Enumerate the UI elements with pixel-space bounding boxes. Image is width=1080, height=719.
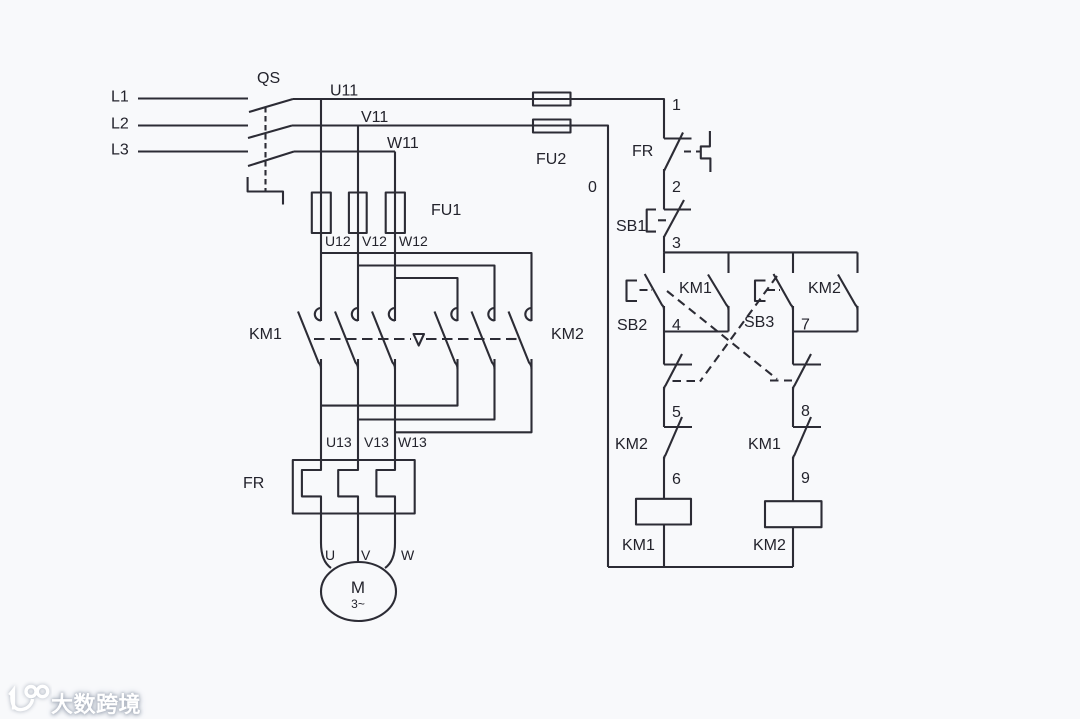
wire KM1 coil to 0: [663, 524, 665, 567]
heater element 3: [376, 460, 395, 514]
svg-text:U: U: [325, 547, 335, 563]
contact KM2 aux blade: [838, 275, 858, 311]
wire KM2 out3 to W13: [395, 359, 532, 432]
button SB3 dashed link: [767, 289, 780, 291]
svg-text:6: 6: [672, 471, 681, 488]
contact SB1 NC tick: [664, 208, 691, 210]
svg-text:3~: 3~: [351, 597, 365, 611]
coil KM2: [765, 501, 822, 527]
coil KM1: [636, 499, 691, 525]
wire branch V to KM2: [358, 266, 495, 322]
fuse FU1-1: [312, 193, 331, 234]
svg-text:2: 2: [672, 179, 681, 196]
wire W13 column: [394, 359, 396, 460]
linkage triangle: [414, 334, 425, 346]
switch QS blade pole2: [248, 126, 292, 139]
relay FR trip symbol: [701, 131, 711, 172]
svg-text:8: 8: [801, 403, 810, 420]
wire U11 drop: [320, 99, 322, 321]
linkage dashed KM1-KM2: [314, 338, 411, 340]
switch QS bracket: [248, 177, 283, 205]
svg-text:L2: L2: [111, 116, 129, 133]
wire KM2 out2 to V13: [358, 359, 495, 420]
wire node6: [663, 457, 665, 499]
wire KM2aux bottom: [856, 306, 858, 332]
wire SB3 top: [792, 252, 794, 273]
switch QS linkage dashed: [264, 107, 266, 191]
svg-text:FU1: FU1: [431, 202, 461, 219]
wire SB2 bottom: [663, 306, 665, 332]
wire KM1aux bottom: [727, 306, 729, 332]
wire node8: [792, 387, 794, 427]
svg-text:FR: FR: [243, 475, 264, 492]
svg-text:KM2: KM2: [551, 326, 584, 343]
svg-text:7: 7: [801, 317, 810, 334]
switch QS blade pole3: [248, 152, 294, 167]
svg-text:4: 4: [672, 317, 681, 334]
svg-text:U11: U11: [330, 83, 358, 100]
wire V13 column: [357, 359, 359, 460]
svg-text:KM2: KM2: [615, 436, 648, 453]
wire L3 incoming: [138, 150, 248, 152]
svg-text:KM1: KM1: [679, 280, 712, 297]
contactor KM2 contact 3: [525, 308, 531, 320]
contact KM1 interlock NC blade: [793, 417, 811, 459]
svg-text:M: M: [351, 578, 365, 597]
wire KM2aux top: [856, 252, 858, 273]
wire branch U to KM2: [321, 253, 532, 321]
contact SB2 NC blade: [793, 354, 811, 390]
wire KM2 coil to 0: [792, 527, 794, 568]
motor M circle: [321, 562, 396, 621]
svg-text:U12: U12: [325, 233, 351, 249]
button SB3 cap: [755, 281, 766, 302]
wire U13 column: [320, 359, 322, 460]
button SB1 cap: [647, 210, 656, 232]
interlock dashed SB3 to left NC: [700, 276, 777, 382]
wire motor lead W: [385, 514, 395, 569]
svg-text:3: 3: [672, 235, 681, 252]
svg-text:L1: L1: [111, 89, 129, 106]
wire U11 top feed: [293, 99, 664, 139]
wire W11 drop: [394, 152, 396, 322]
contact SB3 NO blade: [774, 274, 794, 310]
wire node9: [792, 457, 794, 501]
contact KM1 interlock NC tick: [793, 426, 821, 428]
button SB2 dashed link: [640, 289, 653, 291]
wire motor lead V: [357, 514, 359, 563]
svg-text:0: 0: [588, 179, 597, 196]
svg-text:FR: FR: [632, 143, 653, 160]
contact FR NC tick: [664, 137, 692, 139]
svg-text:SB3: SB3: [744, 314, 774, 331]
wire V11 feed: [292, 126, 608, 568]
contact SB2 NC tick: [793, 363, 821, 365]
wire L2 incoming: [138, 124, 248, 126]
wire node5: [663, 387, 665, 427]
contact KM2 interlock NC blade: [664, 417, 682, 459]
wire SB3 bottom: [792, 306, 794, 332]
contact SB3 NC blade: [664, 354, 682, 390]
wire L1 incoming: [138, 97, 248, 99]
svg-text:QS: QS: [257, 70, 280, 87]
contact FR NC blade: [664, 133, 683, 172]
contact SB2 NO blade: [645, 274, 664, 310]
svg-text:V13: V13: [364, 434, 389, 450]
svg-text:U13: U13: [326, 434, 352, 450]
svg-text:W13: W13: [398, 434, 427, 450]
heater element 1: [302, 460, 321, 514]
svg-text:W: W: [401, 547, 415, 563]
fuse FU1-3: [386, 193, 405, 234]
switch QS blade pole1: [249, 99, 293, 112]
svg-text:KM2: KM2: [808, 280, 841, 297]
svg-text:KM2: KM2: [753, 537, 786, 554]
wire node4 to SB3NC: [663, 332, 665, 365]
svg-text:V: V: [361, 547, 371, 563]
svg-text:W12: W12: [399, 233, 428, 249]
contactor KM1 contact 3: [389, 308, 395, 320]
svg-text:9: 9: [801, 470, 810, 487]
svg-text:KM1: KM1: [249, 326, 282, 343]
contact KM2 interlock NC tick: [664, 426, 692, 428]
wire node7: [793, 330, 858, 332]
wire 0 return rail: [608, 566, 793, 568]
fuse FU2 upper: [533, 93, 571, 106]
wire W11 feed: [294, 150, 395, 152]
wire node3 vertical: [663, 236, 665, 252]
contact KM1 aux blade: [708, 275, 729, 311]
fuse FU1-2: [349, 193, 367, 234]
relay FR heater box: [293, 460, 415, 514]
contactor KM2 contact 2: [488, 308, 494, 320]
svg-text:KM1: KM1: [748, 436, 781, 453]
wire KM1aux top: [727, 252, 729, 273]
wire V11 drop: [357, 126, 359, 322]
heater element 2: [338, 460, 358, 514]
fuse FU2 lower: [533, 120, 571, 133]
contactor KM1 contact 2: [352, 308, 358, 320]
button SB2 cap: [627, 281, 638, 302]
svg-text:5: 5: [672, 404, 681, 421]
interlock dashed SB2 to right NC: [667, 291, 777, 379]
svg-text:V11: V11: [361, 109, 388, 126]
contact FR dashed link: [684, 150, 701, 152]
contactor KM1 contact 1: [315, 308, 321, 320]
wire KM2 out1 to U13: [321, 359, 458, 406]
svg-text:1: 1: [672, 97, 681, 114]
wire node2: [663, 169, 665, 210]
svg-text:V12: V12: [362, 233, 387, 249]
wire node3 rail: [664, 251, 858, 253]
svg-text:SB1: SB1: [616, 218, 646, 235]
wire motor lead U: [321, 514, 331, 569]
wire SB2 top: [663, 252, 665, 273]
wire branch W to KM2: [395, 278, 458, 321]
wire node4: [664, 330, 729, 332]
button SB1 dashed link: [658, 219, 670, 221]
svg-text:KM1: KM1: [622, 537, 655, 554]
svg-text:L3: L3: [111, 142, 129, 159]
contactor KM2 contact 1: [451, 308, 457, 320]
svg-text:SB2: SB2: [617, 317, 647, 334]
contact SB3 NC tick: [664, 363, 692, 365]
watermark logo: [51, 687, 141, 719]
contact SB1 NC blade: [664, 200, 684, 237]
svg-text:W11: W11: [387, 135, 419, 152]
svg-text:FU2: FU2: [536, 151, 566, 168]
wire node7 to SB2NC: [792, 332, 794, 365]
